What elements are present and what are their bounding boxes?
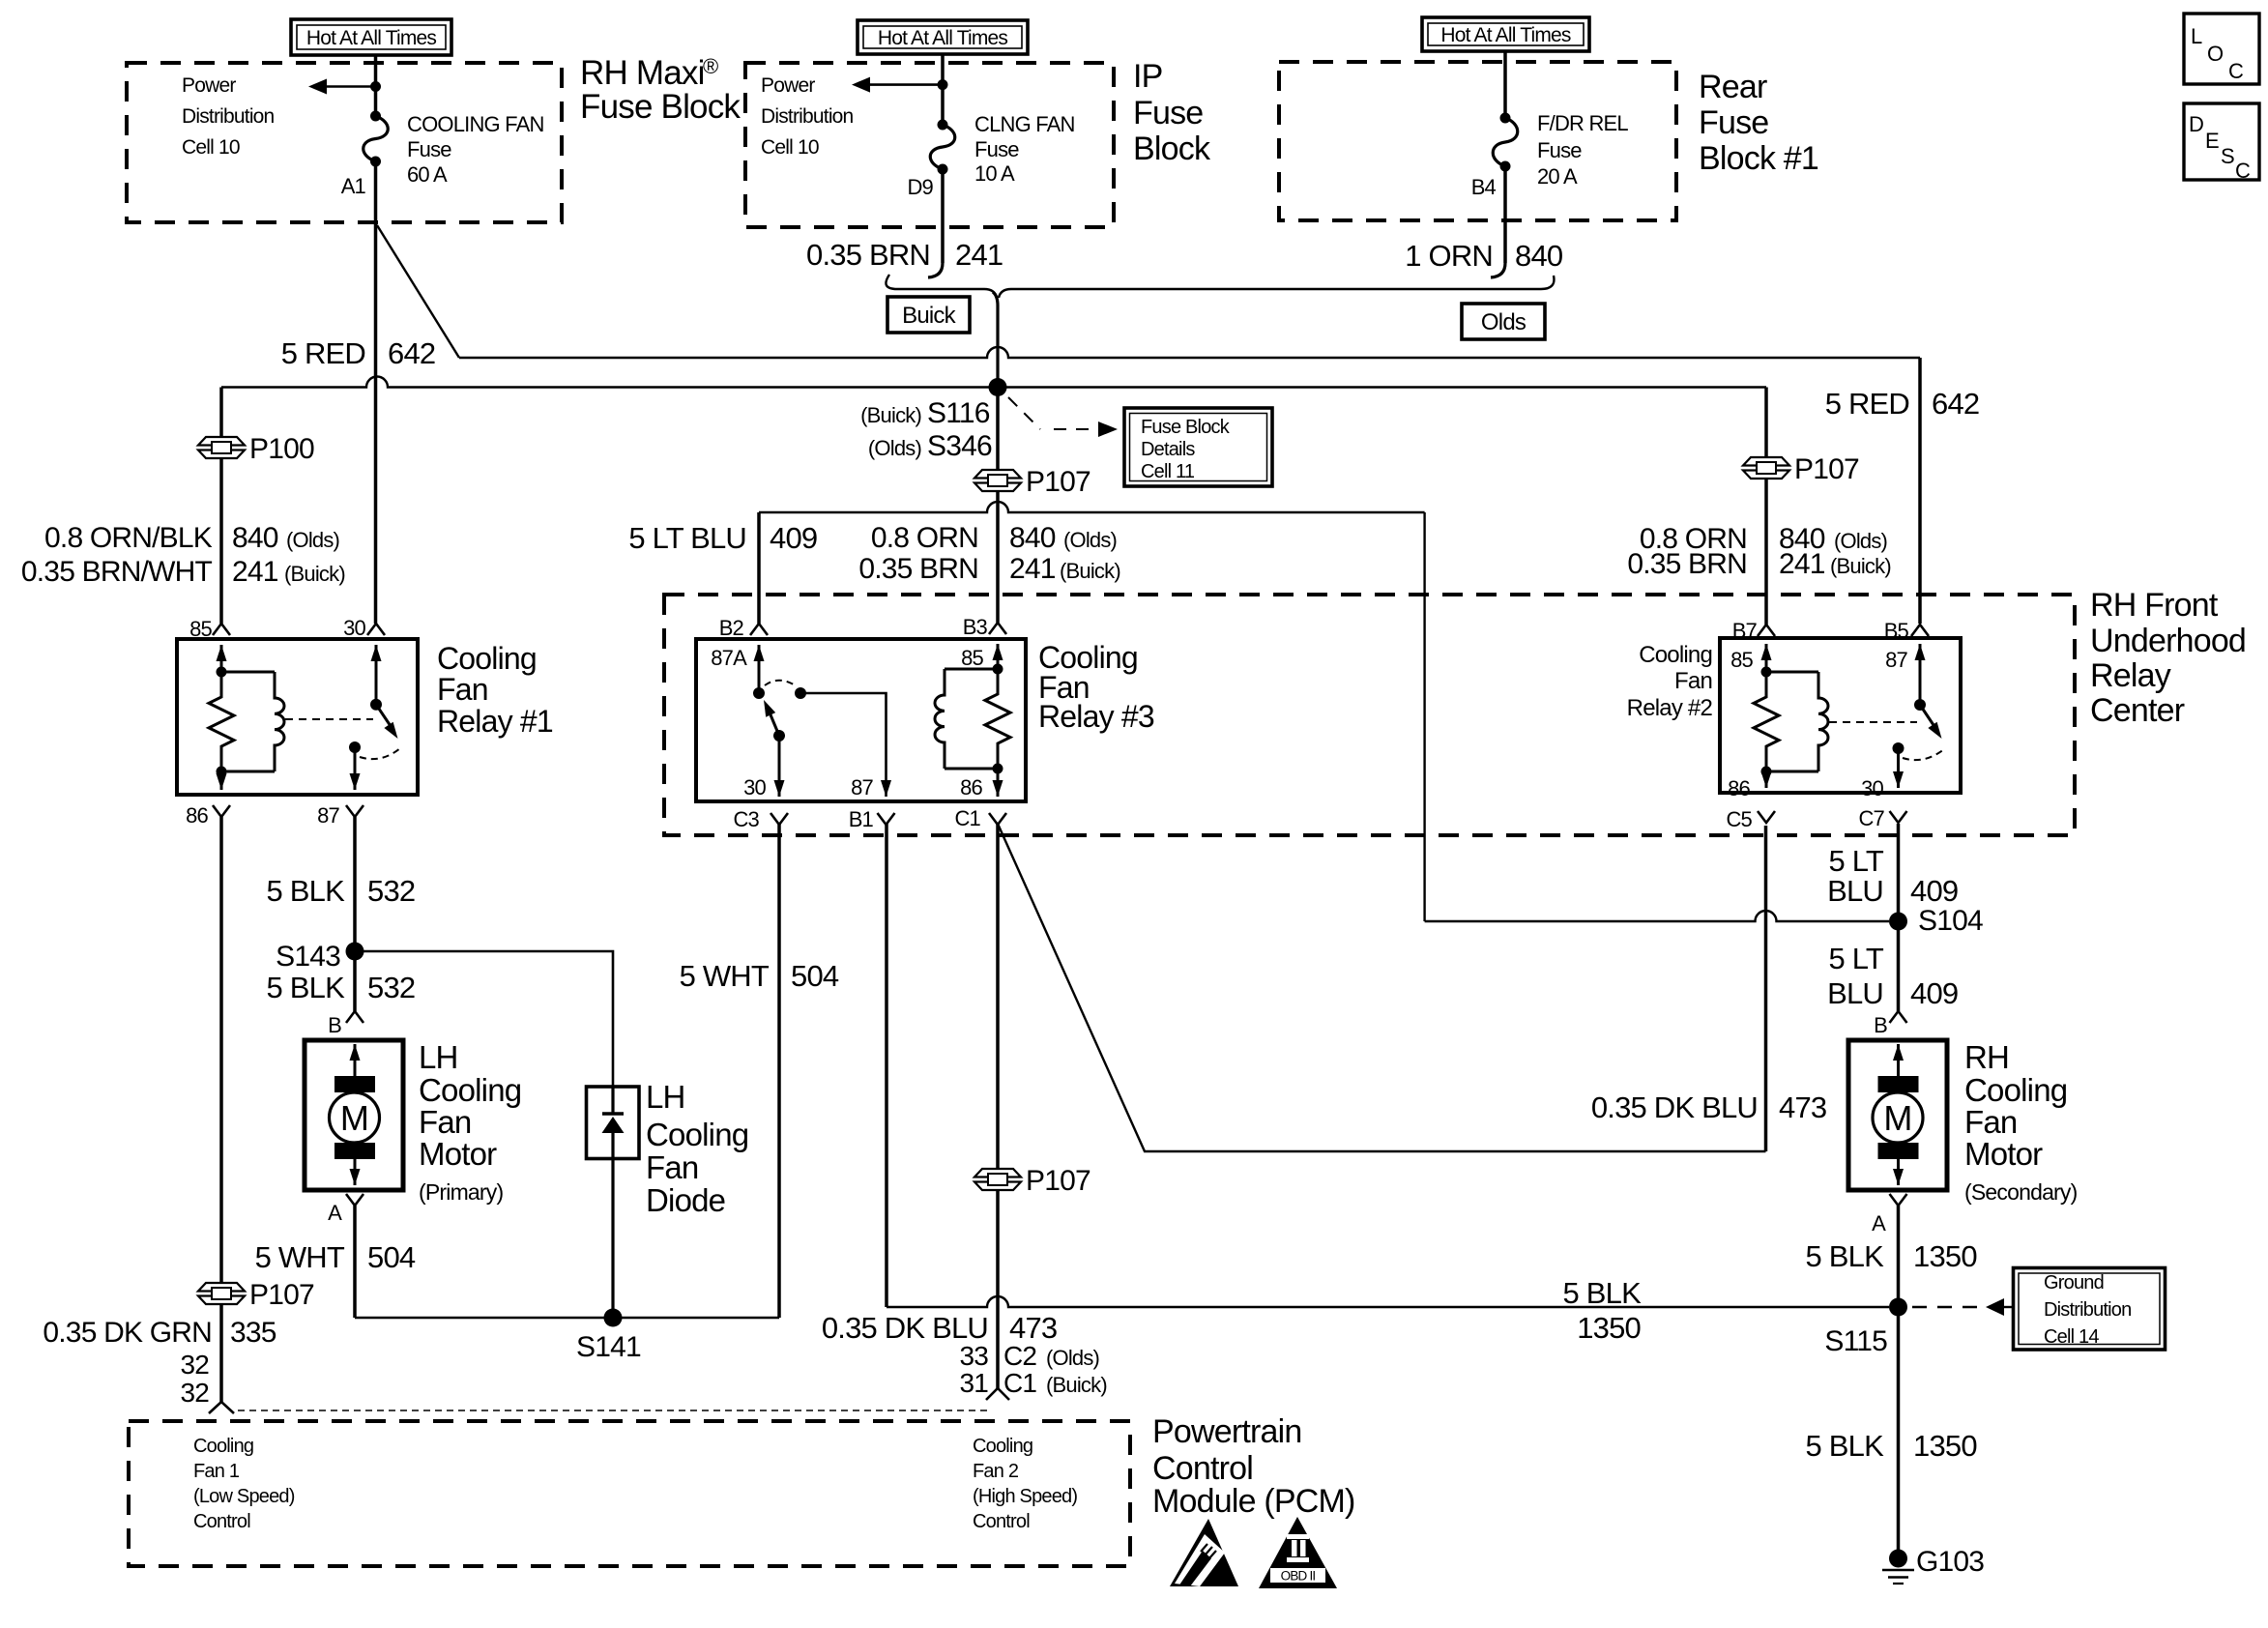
wire: D9 down out of IP block <box>941 169 945 263</box>
svg-text:M: M <box>340 1098 368 1138</box>
svg-text:241: 241 <box>1779 548 1825 580</box>
svg-text:5 BLK: 5 BLK <box>1806 1239 1885 1273</box>
motor M2 box: RH Cooling Fan Motor <box>1848 1040 1947 1190</box>
svg-text:Block: Block <box>1133 131 1211 167</box>
relay2 coil top node <box>1761 667 1772 678</box>
svg-text:241: 241 <box>1009 553 1056 585</box>
svg-text:BLU: BLU <box>1827 874 1883 908</box>
svg-text:Cooling: Cooling <box>419 1072 521 1108</box>
relay3 pin87 arrow head <box>881 780 891 797</box>
svg-text:(Buick): (Buick) <box>1060 559 1120 583</box>
relay1 pin85 arrow <box>220 645 223 672</box>
relay1 contact 87 node <box>349 741 361 753</box>
svg-text:532: 532 <box>367 874 415 908</box>
svg-text:(Olds): (Olds) <box>1834 529 1887 553</box>
svg-text:P100: P100 <box>249 433 314 465</box>
svg-text:Underhood: Underhood <box>2090 623 2246 659</box>
wire: P100 drop to relay1 85 <box>219 388 223 625</box>
svg-text:Cell 14: Cell 14 <box>2044 1326 2099 1348</box>
RH motor armature circle M <box>1873 1092 1923 1143</box>
svg-text:(Olds): (Olds) <box>1063 528 1117 552</box>
svg-text:Fan 2: Fan 2 <box>973 1461 1019 1482</box>
svg-text:Center: Center <box>2090 692 2185 729</box>
svg-text:S: S <box>2221 144 2234 168</box>
arrow to power distribution #1 <box>308 79 327 95</box>
svg-text:A1: A1 <box>341 174 366 198</box>
wire: diode to S141 <box>611 1159 614 1319</box>
svg-text:(Buick): (Buick) <box>284 562 345 586</box>
svg-text:Power: Power <box>761 74 815 97</box>
wire: S115 to G103 <box>1897 1307 1901 1555</box>
wire: relay3 C1 down to PCM 31/33 <box>996 824 1000 1388</box>
svg-text:(High Speed): (High Speed) <box>973 1486 1077 1507</box>
icon: ESD warning triangle <box>1170 1519 1238 1586</box>
fuse F3: F/DR REL Fuse 20A <box>1500 113 1511 124</box>
svg-text:P107: P107 <box>1026 466 1090 498</box>
svg-text:Fan: Fan <box>419 1104 471 1140</box>
svg-text:A: A <box>328 1201 342 1225</box>
svg-text:M: M <box>1883 1098 1911 1138</box>
icon: OBD II triangle <box>1259 1517 1337 1588</box>
svg-text:5 WHT: 5 WHT <box>680 959 770 993</box>
svg-text:Hot At All Times: Hot At All Times <box>1440 24 1571 46</box>
resistor relay1 coil-suppression <box>209 672 234 771</box>
dashed reference arrow to Ground Distribution <box>1912 1306 1980 1308</box>
svg-text:Fan: Fan <box>1964 1104 2017 1140</box>
wire: S141 up to relay3 C3 (5 WHT 504) <box>777 824 781 1318</box>
svg-text:1350: 1350 <box>1913 1429 1977 1463</box>
node: junction at arrow #1 <box>370 81 381 92</box>
wire: relay2 C7 to RH motor B <box>1897 824 1901 1011</box>
power label box: Hot At All Times #2 <box>858 20 1028 54</box>
svg-text:Cooling: Cooling <box>1964 1072 2067 1108</box>
wire: relay1 86 to PCM pin 32 <box>219 817 223 1402</box>
svg-text:P107: P107 <box>1026 1165 1090 1197</box>
svg-text:(Olds): (Olds) <box>286 528 339 552</box>
wire: relay3 87 (B1) to S115 <box>885 824 888 1307</box>
svg-text:Control: Control <box>1152 1450 1253 1487</box>
svg-text:0.35 BRN: 0.35 BRN <box>806 238 930 272</box>
dashed actuator link relay1 <box>285 718 373 720</box>
svg-text:(Buick): (Buick) <box>860 403 921 427</box>
svg-text:241: 241 <box>955 238 1003 272</box>
reference box: Fuse Block Details Cell 11 <box>1124 408 1272 486</box>
dashed actuator link relay2 <box>1829 721 1917 723</box>
svg-text:Control: Control <box>973 1511 1030 1532</box>
svg-text:504: 504 <box>791 959 839 993</box>
coil relay2 <box>1766 671 1818 674</box>
diode D1 box: LH Cooling Fan Diode <box>587 1087 640 1159</box>
svg-text:(Low Speed): (Low Speed) <box>193 1486 295 1507</box>
svg-text:5 BLK: 5 BLK <box>1806 1429 1885 1463</box>
svg-text:C1: C1 <box>1003 1368 1036 1398</box>
RH motor brush top <box>1878 1076 1919 1092</box>
svg-text:60 A: 60 A <box>407 162 448 187</box>
svg-text:840: 840 <box>1009 522 1056 554</box>
RH motor return arrow <box>1897 1158 1900 1185</box>
power label box: Hot At All Times #1 <box>291 19 451 55</box>
svg-text:5 LT: 5 LT <box>1828 942 1883 975</box>
LH motor brush top <box>334 1076 375 1092</box>
svg-text:Distribution: Distribution <box>182 105 275 128</box>
svg-text:D9: D9 <box>907 175 933 199</box>
svg-text:Cooling: Cooling <box>646 1117 748 1152</box>
node: junction at arrow #2 <box>938 79 948 90</box>
svg-text:Cell 10: Cell 10 <box>761 136 819 159</box>
svg-text:Fan: Fan <box>1674 668 1712 694</box>
fuse F2: CLNG FAN Fuse 10A <box>938 120 948 131</box>
svg-text:Ground: Ground <box>2044 1272 2104 1294</box>
svg-text:335: 335 <box>230 1317 276 1349</box>
wire: S116 drop to relay3 B3 <box>996 388 1000 624</box>
svg-text:(Secondary): (Secondary) <box>1964 1179 2078 1205</box>
ground G103 <box>1889 1550 1907 1568</box>
svg-text:S346: S346 <box>927 430 992 462</box>
svg-text:B1: B1 <box>849 807 874 831</box>
svg-text:Block #1: Block #1 <box>1699 140 1818 177</box>
wire: hot feed into fuse B4 <box>1503 51 1507 118</box>
svg-text:B2: B2 <box>719 616 744 640</box>
svg-text:C3: C3 <box>733 807 759 831</box>
svg-text:0.35 DK BLU: 0.35 DK BLU <box>1591 1090 1758 1124</box>
svg-text:B: B <box>328 1013 341 1037</box>
svg-text:C: C <box>2228 59 2244 83</box>
svg-text:S143: S143 <box>276 941 340 973</box>
svg-text:Hot At All Times: Hot At All Times <box>878 27 1008 49</box>
svg-text:B7: B7 <box>1732 619 1758 643</box>
option label box Olds <box>1462 304 1545 339</box>
svg-text:5 BLK: 5 BLK <box>1563 1276 1643 1310</box>
svg-text:A: A <box>1872 1211 1886 1236</box>
svg-text:O: O <box>2207 42 2224 66</box>
relay K1 box: Cooling Fan Relay #1 <box>177 639 418 795</box>
svg-text:5 RED: 5 RED <box>281 336 365 370</box>
wire: diagonal C1 to relay2 C5 net <box>998 824 1766 1151</box>
svg-text:32: 32 <box>180 1378 209 1408</box>
svg-text:RH: RH <box>1964 1039 2009 1075</box>
fuse F1: COOLING FAN Fuse 60A <box>370 111 381 122</box>
reference box: Ground Distribution Cell 14 <box>2014 1268 2166 1351</box>
wire through diode box <box>611 1087 614 1114</box>
svg-text:Relay: Relay <box>2090 657 2171 694</box>
svg-text:Relay #2: Relay #2 <box>1627 695 1713 721</box>
svg-text:87A: 87A <box>711 646 747 670</box>
merge brace for 241/840 wires <box>886 275 997 298</box>
svg-text:Powertrain: Powertrain <box>1152 1413 1302 1450</box>
svg-text:BLU: BLU <box>1827 976 1883 1010</box>
svg-text:0.8 ORN/BLK: 0.8 ORN/BLK <box>44 522 213 554</box>
relay1 coil top node <box>217 667 227 678</box>
svg-text:86: 86 <box>1728 776 1750 800</box>
svg-text:Relay #1: Relay #1 <box>437 704 553 739</box>
coil relay1 <box>221 671 275 674</box>
fuse block box: Rear Fuse Block #1 (dashed) <box>1279 62 1676 220</box>
svg-text:87: 87 <box>317 803 339 828</box>
RH motor feed arrow <box>1897 1044 1900 1077</box>
svg-text:®: ® <box>703 54 718 78</box>
svg-text:Motor: Motor <box>1964 1136 2043 1172</box>
svg-text:Fuse Block: Fuse Block <box>580 88 741 126</box>
relay2 coil bottom node <box>1761 767 1772 777</box>
svg-text:S116: S116 <box>927 397 990 429</box>
svg-text:473: 473 <box>1009 1311 1057 1345</box>
thin dashed connector face line <box>238 1410 988 1411</box>
svg-text:Buick: Buick <box>902 303 956 329</box>
svg-text:E: E <box>2205 129 2219 153</box>
svg-text:0.35 BRN: 0.35 BRN <box>1627 548 1747 580</box>
dashed travel arc relay3 <box>765 681 797 686</box>
node S141 <box>604 1309 623 1327</box>
svg-text:C7: C7 <box>1858 806 1884 830</box>
svg-text:33: 33 <box>959 1341 988 1371</box>
svg-text:409: 409 <box>1910 976 1958 1010</box>
svg-text:B5: B5 <box>1884 619 1909 643</box>
wire: A1 down to relay1 pin 30 <box>374 161 378 624</box>
wire: diagonal from fuse A1 to 5 RED 642 bus <box>377 225 459 358</box>
svg-text:IP: IP <box>1133 58 1163 95</box>
relay1 coil bottom node <box>217 767 227 777</box>
svg-text:G103: G103 <box>1916 1546 1984 1578</box>
svg-text:87: 87 <box>851 775 873 799</box>
relay3 contact 87 node + link to pin 87 <box>795 687 806 699</box>
svg-text:0.35 BRN: 0.35 BRN <box>858 553 978 585</box>
svg-text:Fuse: Fuse <box>407 137 451 161</box>
fuse block box: IP Fuse Block (dashed) <box>745 63 1114 227</box>
diode D1 symbol <box>602 1112 624 1115</box>
connector P100 <box>198 437 245 446</box>
svg-text:5 RED: 5 RED <box>1825 387 1909 421</box>
LH motor armature circle M <box>330 1092 380 1143</box>
dashed travel arc relay1 <box>360 748 400 759</box>
svg-text:S115: S115 <box>1824 1325 1887 1357</box>
svg-text:LH: LH <box>646 1079 685 1115</box>
svg-text:87: 87 <box>1885 648 1907 672</box>
relay K3 box: Cooling Fan Relay #3 <box>696 639 1026 801</box>
svg-text:1 ORN: 1 ORN <box>1405 239 1493 273</box>
svg-text:0.35 DK GRN: 0.35 DK GRN <box>43 1317 212 1349</box>
svg-text:85: 85 <box>189 617 212 641</box>
svg-text:Cooling: Cooling <box>1639 642 1712 668</box>
option label box Buick <box>887 297 970 333</box>
wire: S141 bus <box>355 1317 779 1319</box>
svg-text:(Olds): (Olds) <box>1046 1346 1099 1370</box>
svg-text:5 BLK: 5 BLK <box>267 874 346 908</box>
svg-text:(Buick): (Buick) <box>1046 1373 1107 1397</box>
svg-text:Module (PCM): Module (PCM) <box>1152 1483 1355 1520</box>
LH motor return arrow <box>354 1158 357 1185</box>
connector P107 (low center) <box>974 1169 1021 1177</box>
relay3 coil top node <box>993 664 1003 675</box>
svg-text:(Olds): (Olds) <box>868 436 921 460</box>
svg-text:Fuse: Fuse <box>1133 95 1203 131</box>
svg-text:L: L <box>2191 24 2202 48</box>
power label box: Hot At All Times #3 <box>1422 17 1589 51</box>
svg-text:LH: LH <box>419 1039 458 1075</box>
wire: S116 bus (y=400.5) <box>221 377 1766 388</box>
svg-text:P107: P107 <box>1794 453 1859 485</box>
wire: right P107 drop to relay2 B7 <box>1764 388 1768 625</box>
svg-text:0.35 BRN/WHT: 0.35 BRN/WHT <box>21 556 213 588</box>
svg-text:Control: Control <box>193 1511 250 1532</box>
svg-text:Details: Details <box>1141 439 1195 460</box>
svg-text:20 A: 20 A <box>1537 164 1578 189</box>
LH motor feed arrow <box>354 1044 357 1077</box>
svg-text:0.35 DK BLU: 0.35 DK BLU <box>822 1311 988 1345</box>
wire: hot feed into fuse D9 <box>941 54 945 125</box>
dashed reference arrow to Fuse Block Details <box>1008 397 1040 429</box>
svg-text:504: 504 <box>367 1240 416 1274</box>
fuse block box: RH Maxi Fuse Block (dashed) <box>127 63 562 222</box>
svg-text:473: 473 <box>1779 1090 1826 1124</box>
svg-text:5 LT BLU: 5 LT BLU <box>628 521 746 555</box>
relay2 contact 30 node <box>1893 742 1905 754</box>
svg-text:C2: C2 <box>1003 1341 1036 1371</box>
connector P107 (right) <box>1743 457 1789 466</box>
svg-text:Rear: Rear <box>1699 69 1767 105</box>
resistor relay3 <box>985 669 1010 769</box>
svg-text:Fan: Fan <box>437 672 488 707</box>
svg-text:85: 85 <box>961 646 983 670</box>
svg-text:Fuse: Fuse <box>1699 104 1768 141</box>
svg-text:COOLING FAN: COOLING FAN <box>407 112 544 136</box>
svg-text:Fan: Fan <box>646 1149 698 1185</box>
svg-text:P107: P107 <box>249 1279 314 1311</box>
svg-text:B4: B4 <box>1471 175 1497 199</box>
svg-text:840: 840 <box>1515 239 1563 273</box>
svg-text:B: B <box>1874 1013 1887 1037</box>
svg-text:Fuse: Fuse <box>974 137 1019 161</box>
relay K2 box: Cooling Fan Relay #2 <box>1720 638 1961 793</box>
svg-text:30: 30 <box>343 616 365 640</box>
relay3 contact 87A node <box>753 687 765 699</box>
svg-text:30: 30 <box>743 775 766 799</box>
svg-text:Fuse: Fuse <box>1537 138 1582 162</box>
wire: hot feed into fuse A1 <box>374 55 378 116</box>
relay1 pin30 arrow+wire <box>375 645 378 705</box>
svg-text:B3: B3 <box>963 615 988 639</box>
svg-text:Hot At All Times: Hot At All Times <box>306 27 437 49</box>
svg-text:5 LT: 5 LT <box>1828 844 1883 878</box>
svg-text:Motor: Motor <box>419 1136 497 1172</box>
svg-text:Cooling: Cooling <box>437 641 537 676</box>
svg-text:1350: 1350 <box>1577 1311 1641 1345</box>
svg-text:85: 85 <box>1730 648 1753 672</box>
svg-text:Diode: Diode <box>646 1182 725 1218</box>
svg-text:Distribution: Distribution <box>761 105 854 128</box>
page marker box DESC <box>2184 103 2259 180</box>
svg-text:C: C <box>2235 159 2251 183</box>
arrow to power distribution #2 <box>852 77 870 93</box>
node S143 <box>346 943 364 961</box>
wire: B4 down out of rear block <box>1503 166 1507 263</box>
svg-text:Relay #3: Relay #3 <box>1038 699 1154 734</box>
svg-text:532: 532 <box>367 971 415 1004</box>
switch arm relay2 <box>1920 705 1935 728</box>
relay3 pin30 arrow <box>778 736 781 797</box>
svg-text:Cooling: Cooling <box>193 1436 253 1457</box>
svg-text:S141: S141 <box>576 1331 641 1363</box>
svg-text:241: 241 <box>232 556 278 588</box>
svg-text:Cooling: Cooling <box>973 1436 1032 1457</box>
svg-text:C1: C1 <box>954 806 980 830</box>
svg-text:0.8 ORN: 0.8 ORN <box>871 522 978 554</box>
wire: LH motor A to S141 line <box>353 1206 357 1318</box>
RH motor brush bottom <box>1878 1143 1919 1159</box>
wire: S143 branch to diode <box>355 951 613 1087</box>
svg-text:Power: Power <box>182 74 236 97</box>
svg-text:10 A: 10 A <box>974 161 1015 186</box>
wire: RH motor A to S115 <box>1897 1206 1901 1307</box>
svg-text:30: 30 <box>1861 776 1883 800</box>
relay3 coil bottom node <box>993 764 1003 774</box>
wire: B5 feed down from bus <box>1918 358 1922 624</box>
wire: relay3 87A net to S104 <box>757 512 761 624</box>
switch arm relay1 <box>376 705 392 728</box>
svg-text:1350: 1350 <box>1913 1239 1977 1273</box>
connector P107 (center) <box>974 470 1021 479</box>
svg-text:Cell 11: Cell 11 <box>1141 461 1195 482</box>
svg-text:Distribution: Distribution <box>2044 1299 2131 1321</box>
svg-text:F/DR REL: F/DR REL <box>1537 111 1628 135</box>
svg-text:32: 32 <box>180 1350 209 1380</box>
resistor relay2 <box>1754 672 1779 771</box>
svg-text:(Buick): (Buick) <box>1830 554 1891 578</box>
coil relay3 <box>945 668 998 671</box>
svg-text:RH Maxi: RH Maxi <box>580 54 705 92</box>
page marker box LOC <box>2184 14 2259 84</box>
svg-text:409: 409 <box>770 521 817 555</box>
svg-text:642: 642 <box>1932 387 1979 421</box>
LH motor brush bottom <box>334 1143 375 1159</box>
connector P107 (left) <box>198 1283 245 1292</box>
svg-text:840: 840 <box>232 522 278 554</box>
PCM pin terminal center <box>986 1388 1009 1400</box>
relay1 pin87 arrow <box>354 747 357 790</box>
svg-text:Fan 1: Fan 1 <box>193 1461 240 1482</box>
svg-text:5 BLK: 5 BLK <box>267 971 346 1004</box>
svg-text:CLNG FAN: CLNG FAN <box>974 112 1075 136</box>
relay center box (dashed) <box>664 595 2075 835</box>
svg-text:S104: S104 <box>1918 905 1983 937</box>
wire: relay1 87 down to S143 <box>353 817 357 1011</box>
svg-text:Fuse Block: Fuse Block <box>1141 417 1231 438</box>
node S116/S346 junction <box>989 378 1007 396</box>
svg-text:86: 86 <box>960 775 982 799</box>
svg-text:409: 409 <box>1910 874 1958 908</box>
svg-text:642: 642 <box>388 336 435 370</box>
svg-text:Olds: Olds <box>1481 309 1527 335</box>
dashed travel arc relay2 <box>1903 749 1944 760</box>
svg-text:86: 86 <box>186 803 208 828</box>
switch arm relay3 <box>770 712 779 736</box>
wire: 5 RED 642 bus (y=370) <box>459 347 1920 358</box>
module box: Powertrain Control Module (dashed) <box>129 1421 1130 1566</box>
node S104 <box>1889 913 1907 931</box>
node S115 <box>1889 1298 1907 1317</box>
wire: merge tail down to S116 <box>993 292 998 387</box>
PCM pin terminal left <box>209 1402 234 1413</box>
svg-text:OBD II: OBD II <box>1281 1569 1316 1584</box>
svg-text:D: D <box>2189 112 2203 136</box>
svg-text:C5: C5 <box>1726 807 1752 831</box>
svg-text:RH Front: RH Front <box>2090 587 2219 624</box>
relay3 pivot node <box>773 730 785 741</box>
relay1 pin86 arrow <box>220 771 223 790</box>
svg-text:(Primary): (Primary) <box>419 1179 503 1205</box>
motor M1 box: LH Cooling Fan Motor <box>305 1040 403 1190</box>
svg-text:Cell 10: Cell 10 <box>182 136 240 159</box>
svg-text:5 WHT: 5 WHT <box>255 1240 345 1274</box>
